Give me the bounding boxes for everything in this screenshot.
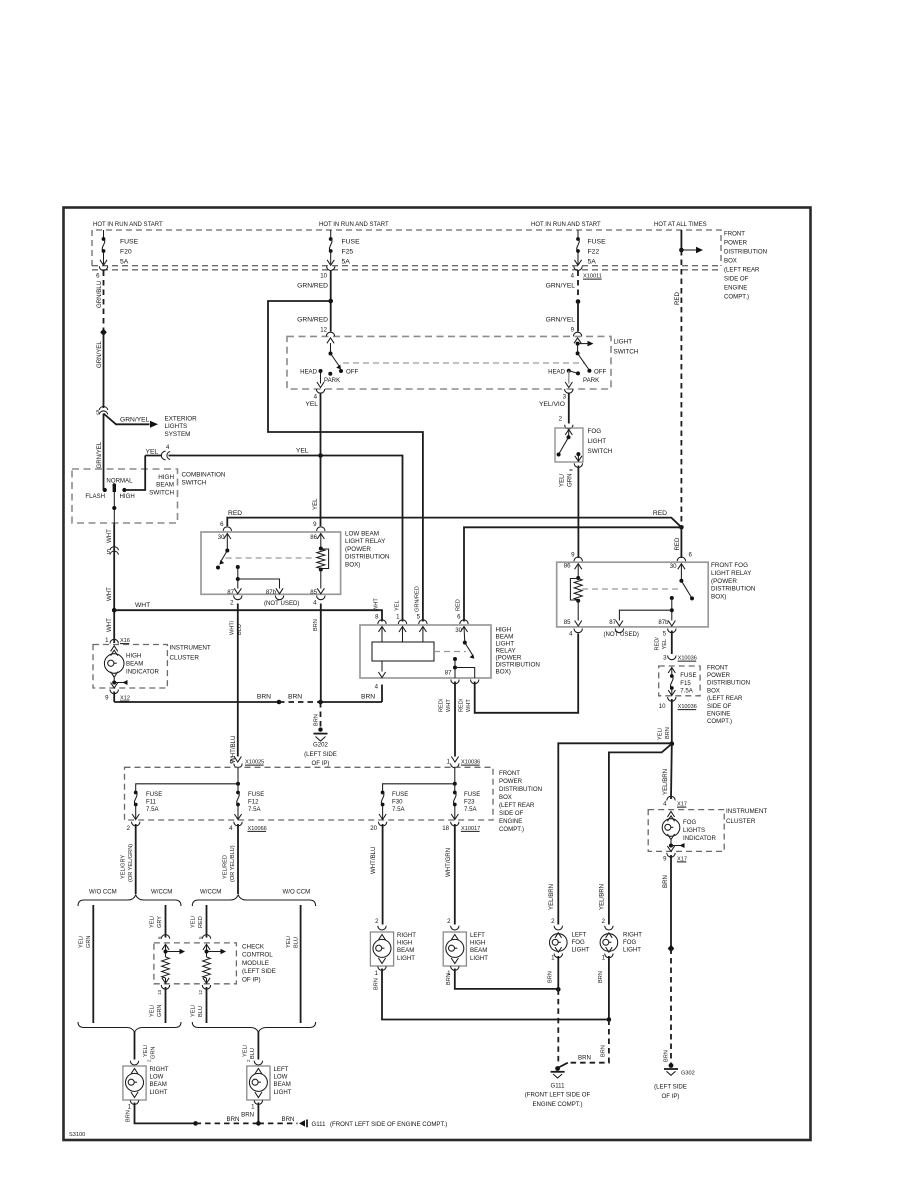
svg-text:HOT AT ALL TIMES: HOT AT ALL TIMES	[654, 222, 707, 228]
border frame	[64, 208, 811, 1141]
svg-text:10: 10	[659, 703, 666, 710]
svg-text:YEL/: YEL/	[559, 473, 566, 487]
svg-text:RIGHT: RIGHT	[623, 932, 642, 939]
svg-text:RED: RED	[674, 292, 681, 305]
wire into F11/F12	[237, 767, 239, 784]
wire from HIGH contact up to YEL line	[124, 456, 145, 491]
svg-text:WHT/: WHT/	[230, 620, 236, 635]
svg-text:FUSE: FUSE	[464, 791, 480, 798]
svg-text:F22: F22	[588, 249, 600, 256]
svg-text:BRN: BRN	[282, 1116, 295, 1123]
svg-text:POWER: POWER	[707, 672, 731, 679]
fuse F25 5A	[330, 230, 332, 239]
connector 4 X10066 below F12	[234, 822, 242, 826]
svg-text:20: 20	[370, 825, 377, 832]
junction left fog BRN node	[556, 987, 561, 992]
svg-text:(LEFT REAR: (LEFT REAR	[499, 802, 535, 809]
svg-text:DISTRIBUTION: DISTRIBUTION	[724, 249, 767, 256]
svg-text:HOT IN RUN AND START: HOT IN RUN AND START	[531, 222, 601, 228]
connector 1 X10036	[451, 757, 458, 763]
svg-text:86: 86	[564, 563, 571, 570]
svg-text:GRN: GRN	[567, 473, 574, 487]
svg-text:LIGHT: LIGHT	[623, 947, 641, 954]
svg-text:YEL: YEL	[312, 498, 319, 510]
svg-text:BOX): BOX)	[345, 561, 360, 568]
svg-text:7.5A: 7.5A	[680, 688, 693, 695]
junction RED node	[679, 525, 684, 530]
svg-text:S3100: S3100	[69, 1132, 85, 1138]
CCM resistor branch 1	[162, 944, 169, 950]
svg-text:YEL/GRY: YEL/GRY	[121, 855, 127, 879]
svg-text:87b: 87b	[658, 619, 669, 626]
svg-text:WHT: WHT	[106, 587, 113, 601]
right feed node with arrow	[577, 343, 579, 353]
svg-text:YEL: YEL	[305, 401, 318, 408]
svg-text:WHT/GRN: WHT/GRN	[445, 848, 452, 877]
wire BRN from left low beam	[257, 1103, 259, 1124]
svg-text:87: 87	[445, 670, 452, 677]
svg-text:(POWER: (POWER	[496, 655, 522, 662]
svg-text:PARK: PARK	[583, 377, 599, 384]
right contacts HEAD PARK	[567, 369, 571, 373]
svg-text:2: 2	[146, 1059, 151, 1062]
fog relay internal dashed link	[582, 588, 678, 590]
wire BRN from right low beam	[135, 1103, 196, 1124]
svg-text:RELAY: RELAY	[496, 648, 517, 655]
svg-text:BLU: BLU	[250, 1048, 256, 1059]
svg-text:WHT: WHT	[374, 598, 380, 611]
svg-text:RED/: RED/	[655, 637, 661, 651]
connector 10 X10036	[668, 697, 676, 701]
svg-text:(LEFT SIDE: (LEFT SIDE	[654, 1084, 687, 1091]
svg-text:F12: F12	[248, 799, 259, 806]
svg-text:POWER: POWER	[724, 240, 748, 247]
svg-text:HIGH: HIGH	[126, 653, 141, 660]
svg-text:COMBINATION: COMBINATION	[182, 472, 226, 479]
wire GRN/BLU (dashed) from F20	[103, 271, 105, 331]
svg-text:30: 30	[670, 563, 677, 570]
low beam light relay box	[201, 532, 341, 594]
fog light switch box	[555, 428, 583, 462]
svg-text:YEL/: YEL/	[242, 1044, 248, 1057]
fuse F15 7.5A	[668, 668, 675, 674]
svg-text:BRN: BRN	[374, 978, 380, 990]
svg-text:GRN/YEL: GRN/YEL	[120, 417, 150, 424]
wire RED/YEL from fog relay pin 5	[671, 631, 673, 655]
svg-text:LIGHTS: LIGHTS	[683, 827, 705, 834]
high beam light relay box	[360, 625, 491, 678]
svg-text:HEAD: HEAD	[300, 369, 318, 376]
wire WHT from combination switch	[113, 524, 115, 644]
svg-text:BRN: BRN	[662, 875, 669, 888]
connector pin 4 X10011 below F22	[574, 266, 582, 270]
wire YEL/GRY to CCM pin 6	[165, 905, 167, 938]
svg-text:87: 87	[609, 619, 616, 626]
wire YEL/BRN down to fog lights indicator	[670, 744, 673, 799]
relay internal 87 contact	[453, 657, 457, 661]
wire GRN/RED from F25 to light switch pin 12	[330, 271, 332, 332]
svg-text:YEL: YEL	[146, 448, 159, 455]
wire RED to high beam relay pin 6	[464, 527, 681, 621]
svg-text:LIGHT: LIGHT	[150, 1089, 168, 1096]
svg-text:F23: F23	[464, 799, 475, 806]
svg-text:WHT: WHT	[446, 699, 452, 712]
svg-text:85: 85	[564, 619, 571, 626]
junction YEL node	[318, 453, 323, 458]
pin 87a connector	[471, 680, 479, 684]
svg-text:FUSE: FUSE	[680, 672, 696, 679]
svg-text:BRN: BRN	[257, 694, 271, 701]
svg-text:CHECK: CHECK	[242, 944, 265, 951]
connector 9 X17	[667, 853, 675, 857]
wire into F30/F23	[454, 767, 456, 784]
svg-text:BOX: BOX	[707, 687, 720, 694]
junction GRN/RED node	[328, 299, 333, 304]
fuse F30 7.5A	[381, 791, 385, 795]
left output HEAD to pin 4	[320, 371, 322, 384]
wire GRN/YEL into combination switch	[103, 414, 105, 491]
svg-text:ENGINE: ENGINE	[724, 285, 747, 292]
brace (left, upper)	[78, 895, 181, 906]
wire YEL horizontal to high beam relay pin 1	[169, 456, 403, 622]
svg-text:FUSE: FUSE	[588, 239, 607, 246]
svg-text:12: 12	[320, 327, 327, 334]
combination switch (high beam switch) box	[72, 469, 178, 523]
svg-text:LOW: LOW	[274, 1074, 288, 1081]
svg-text:LEFT: LEFT	[274, 1066, 289, 1073]
svg-text:CLUSTER: CLUSTER	[170, 655, 200, 662]
svg-text:HIGH: HIGH	[120, 493, 135, 500]
svg-text:10: 10	[320, 273, 327, 280]
right low beam light	[130, 1061, 138, 1065]
left low beam light	[254, 1061, 262, 1065]
svg-text:YEL/BRN: YEL/BRN	[662, 769, 669, 795]
svg-text:INSTRUMENT: INSTRUMENT	[170, 645, 211, 652]
wire BRN dashed to G111	[557, 989, 559, 1064]
svg-text:EXTERIOR: EXTERIOR	[165, 416, 198, 423]
instrument cluster box (fog lights indicator)	[648, 810, 724, 852]
svg-text:BEAM: BEAM	[274, 1081, 291, 1088]
svg-text:W/O CCM: W/O CCM	[283, 889, 311, 896]
svg-text:BEAM: BEAM	[150, 1081, 167, 1088]
svg-text:GRN/YEL: GRN/YEL	[546, 283, 576, 290]
relay internal: 87 output	[236, 565, 240, 569]
svg-text:(OR YEL/BLU): (OR YEL/BLU)	[230, 845, 236, 882]
svg-text:DISTRIBUTION: DISTRIBUTION	[345, 554, 390, 561]
svg-text:ENGINE: ENGINE	[707, 711, 730, 718]
svg-text:LIGHT: LIGHT	[572, 947, 590, 954]
svg-text:BLU: BLU	[293, 937, 299, 948]
svg-text:BOX): BOX)	[711, 594, 726, 601]
svg-text:GRN: GRN	[86, 936, 92, 948]
svg-text:SIDE OF: SIDE OF	[724, 276, 749, 283]
svg-text:NORMAL: NORMAL	[106, 478, 133, 485]
junction BRN node (G202 branch)	[318, 700, 323, 705]
wire BRN dashed to ground G302	[670, 949, 672, 1065]
svg-text:LIGHT RELAY: LIGHT RELAY	[345, 538, 386, 545]
fog switch output pin	[576, 452, 580, 456]
svg-text:GRN/BLU: GRN/BLU	[96, 281, 103, 308]
ground G111 (front)	[559, 1063, 568, 1068]
svg-text:GRN/RED: GRN/RED	[297, 283, 328, 290]
svg-text:YEL/: YEL/	[191, 915, 197, 928]
svg-text:RIGHT: RIGHT	[150, 1066, 169, 1073]
svg-text:COMPT.): COMPT.)	[707, 718, 732, 725]
fuse F12 7.5A	[237, 784, 239, 791]
wire YEL/BRN from F15	[671, 699, 673, 744]
svg-text:BRN: BRN	[446, 973, 452, 985]
svg-text:FRONT: FRONT	[707, 664, 728, 671]
svg-text:85: 85	[310, 589, 317, 596]
switch output to NORMAL position	[113, 492, 115, 524]
connector pin 6 below F20	[99, 266, 107, 270]
svg-text:GRN: GRN	[157, 1005, 163, 1017]
wire YEL/BLU (w/o ccm)	[300, 905, 302, 1023]
svg-text:CONTROL: CONTROL	[242, 952, 273, 959]
svg-text:YEL/: YEL/	[143, 1044, 149, 1057]
svg-text:BRN: BRN	[578, 1055, 591, 1062]
wire GRN/YEL (dashed) from F22	[577, 271, 579, 300]
svg-text:FLASH: FLASH	[85, 493, 105, 500]
svg-text:87b: 87b	[266, 589, 277, 596]
wire BRN from low beam relay pin 4	[320, 604, 322, 703]
fog relay pin 5 connector	[668, 629, 676, 633]
wire RED from low beam relay pin 6	[227, 518, 681, 528]
svg-text:FRONT FOG: FRONT FOG	[711, 562, 748, 569]
brace (right, lower)	[192, 1022, 315, 1032]
svg-text:WHT: WHT	[106, 529, 113, 543]
wire BRN from left fog light	[557, 956, 559, 989]
CCM outputs	[161, 985, 169, 989]
fuse F22 5A	[577, 230, 579, 239]
svg-text:OFF: OFF	[346, 369, 358, 376]
svg-text:CLUSTER: CLUSTER	[726, 818, 756, 825]
svg-text:LEFT: LEFT	[470, 932, 485, 939]
svg-text:FOG: FOG	[683, 819, 696, 826]
svg-text:FOG: FOG	[572, 939, 585, 946]
splice node	[668, 945, 675, 952]
(NOT USED) stub	[275, 596, 283, 600]
wire YEL/BRN to right fog light	[609, 744, 672, 925]
wire YEL/GRY(OR YEL/GRN) from F11	[135, 824, 137, 894]
wire WHT/BLU from low beam relay pin 2	[237, 604, 239, 757]
wire YEL/BLU to left low beam	[257, 1031, 259, 1060]
fog switch lever	[565, 430, 572, 436]
svg-text:YEL: YEL	[662, 639, 668, 650]
svg-text:YEL/: YEL/	[658, 727, 664, 740]
wire BRN from right fog light	[608, 956, 610, 1020]
svg-text:LIGHT: LIGHT	[496, 641, 515, 648]
svg-text:LIGHT: LIGHT	[588, 438, 607, 445]
svg-text:BRN: BRN	[361, 694, 375, 701]
wire BRN from indicator	[670, 855, 672, 949]
svg-text:HIGH: HIGH	[470, 940, 485, 947]
svg-text:BRN: BRN	[313, 619, 319, 631]
svg-text:BRN: BRN	[314, 714, 320, 726]
svg-text:RED: RED	[228, 510, 242, 517]
svg-text:(LEFT SIDE: (LEFT SIDE	[242, 968, 276, 975]
ground G302	[669, 1063, 674, 1068]
svg-text:LIGHT: LIGHT	[274, 1089, 292, 1096]
svg-text:INSTRUMENT: INSTRUMENT	[726, 808, 767, 815]
svg-text:WHT: WHT	[106, 618, 113, 632]
svg-text:(LEFT SIDE: (LEFT SIDE	[304, 751, 337, 758]
svg-text:FUSE: FUSE	[146, 791, 162, 798]
svg-text:YEL/: YEL/	[150, 1004, 156, 1017]
svg-text:DISTRIBUTION: DISTRIBUTION	[499, 786, 542, 793]
G111 pointer symbol	[299, 1120, 305, 1127]
wire BRN dashed to ground	[320, 702, 322, 730]
junction WHT node	[112, 608, 117, 613]
svg-text:F20: F20	[120, 249, 132, 256]
svg-text:13: 13	[157, 989, 162, 995]
svg-text:BOX): BOX)	[496, 669, 511, 676]
wire WHT/GRN from F23 to left high beam	[454, 824, 456, 925]
svg-text:7.5A: 7.5A	[392, 806, 405, 813]
svg-text:SWITCH: SWITCH	[149, 489, 174, 496]
svg-text:BEAM: BEAM	[496, 634, 514, 641]
svg-text:BEAM: BEAM	[397, 947, 414, 954]
ground G202	[318, 727, 322, 731]
svg-text:HOT IN RUN AND START: HOT IN RUN AND START	[93, 222, 163, 228]
junction GRN/YEL node	[576, 299, 581, 304]
splice node	[100, 329, 107, 336]
fuse F23 7.5A	[454, 784, 456, 791]
CCM resistor branch 2	[203, 944, 210, 950]
svg-text:G111: G111	[312, 1121, 327, 1128]
svg-text:W/CCM: W/CCM	[200, 889, 221, 896]
wire YEL/GRN (w/o ccm)	[92, 905, 94, 1023]
svg-text:INDICATOR: INDICATOR	[683, 835, 717, 842]
svg-text:PARK: PARK	[324, 377, 340, 384]
wire BRN dashed to G111	[568, 1020, 609, 1063]
svg-text:LIGHT: LIGHT	[614, 339, 633, 346]
pin 2 connector	[234, 596, 242, 600]
svg-text:BOX: BOX	[499, 794, 512, 801]
svg-text:HIGH: HIGH	[158, 474, 174, 481]
svg-text:BLU: BLU	[237, 624, 243, 635]
svg-text:GRN/RED: GRN/RED	[415, 586, 421, 612]
relay internal: 87b stub (not used)	[238, 579, 280, 589]
lower front power distribution box	[125, 767, 494, 820]
svg-text:BRN: BRN	[227, 1116, 240, 1123]
svg-text:SWITCH: SWITCH	[588, 448, 613, 455]
svg-text:SIDE OF: SIDE OF	[499, 810, 524, 817]
svg-text:W/O CCM: W/O CCM	[89, 889, 117, 896]
svg-text:F25: F25	[342, 249, 354, 256]
wire YEL/RED to CCM pin 5	[206, 905, 208, 938]
svg-text:DISTRIBUTION: DISTRIBUTION	[711, 586, 756, 593]
svg-text:LIGHT RELAY: LIGHT RELAY	[711, 570, 752, 577]
svg-text:ENGINE: ENGINE	[499, 818, 522, 825]
svg-text:OF IP): OF IP)	[312, 760, 330, 767]
svg-text:HIGH: HIGH	[496, 627, 512, 634]
svg-text:12: 12	[198, 989, 203, 995]
svg-text:F30: F30	[392, 799, 403, 806]
svg-text:BRN: BRN	[598, 971, 604, 983]
svg-text:FUSE: FUSE	[248, 791, 264, 798]
svg-text:SIDE OF: SIDE OF	[707, 703, 732, 710]
svg-text:(LEFT REAR: (LEFT REAR	[724, 267, 760, 274]
svg-text:RIGHT: RIGHT	[397, 932, 416, 939]
svg-text:BRN: BRN	[664, 1050, 670, 1062]
wire YEL/VIO to fog light switch	[568, 393, 570, 424]
svg-text:YEL/: YEL/	[286, 935, 292, 948]
brace (left, lower)	[78, 1022, 181, 1032]
svg-text:LIGHT: LIGHT	[470, 955, 488, 962]
high beam indicator bulb	[111, 646, 118, 652]
connector 2 below F11	[132, 822, 140, 826]
connector 6 X10025	[234, 757, 241, 763]
svg-text:GRN/RED: GRN/RED	[297, 317, 328, 324]
svg-text:GRN/YEL: GRN/YEL	[96, 341, 103, 368]
svg-text:HIGH: HIGH	[397, 940, 412, 947]
svg-text:LIGHT: LIGHT	[397, 955, 415, 962]
svg-text:87: 87	[227, 589, 234, 596]
wire GRN/YEL down to switch 5	[103, 332, 105, 408]
BRN dashed to G111 arrow	[258, 1122, 297, 1124]
svg-text:ENGINE COMPT.): ENGINE COMPT.)	[532, 1101, 582, 1108]
svg-text:HEAD: HEAD	[548, 369, 566, 376]
svg-text:GRY: GRY	[157, 916, 163, 928]
fog relay pin 4 connector	[574, 629, 582, 633]
left contacts HEAD OFF PARK	[339, 369, 343, 373]
wire YEL/GRN from fog switch to fog relay	[577, 466, 579, 559]
svg-text:RED/: RED/	[439, 698, 445, 712]
fog lights indicator bulb	[667, 812, 674, 818]
pin 4 connector	[317, 596, 325, 600]
junction BRN node	[256, 1121, 261, 1126]
svg-text:BLU: BLU	[198, 1006, 204, 1017]
svg-text:RED: RED	[674, 537, 681, 550]
svg-text:FOG: FOG	[588, 428, 602, 435]
wire YEL/BRN to left fog light	[558, 743, 672, 924]
svg-text:OF IP): OF IP)	[662, 1093, 680, 1100]
svg-text:BEAM: BEAM	[156, 482, 174, 489]
svg-text:DISTRIBUTION: DISTRIBUTION	[707, 680, 750, 687]
svg-text:LOW: LOW	[150, 1074, 164, 1081]
svg-text:5A: 5A	[342, 259, 351, 266]
svg-text:7.5A: 7.5A	[248, 806, 261, 813]
svg-text:BRN: BRN	[126, 1110, 132, 1122]
svg-text:7.5A: 7.5A	[464, 806, 477, 813]
svg-text:LOW BEAM: LOW BEAM	[345, 531, 379, 538]
svg-text:FRONT: FRONT	[724, 231, 745, 238]
brace (right, upper)	[192, 895, 315, 906]
svg-text:YEL/BRN: YEL/BRN	[599, 884, 606, 910]
svg-text:RED/: RED/	[459, 698, 465, 712]
inner dashed link	[343, 362, 585, 364]
svg-text:SYSTEM: SYSTEM	[165, 431, 191, 438]
svg-text:BRN: BRN	[665, 727, 671, 739]
svg-text:COMPT.): COMPT.)	[499, 826, 524, 833]
front power distribution box (top dashed box)	[92, 230, 721, 266]
svg-text:FUSE: FUSE	[120, 239, 139, 246]
svg-text:LEFT: LEFT	[572, 932, 587, 939]
BRN bus	[114, 701, 279, 703]
front fog light relay box	[557, 562, 709, 627]
svg-text:YEL/: YEL/	[191, 1004, 197, 1017]
svg-text:BRN: BRN	[548, 971, 554, 983]
svg-text:YEL/: YEL/	[150, 915, 156, 928]
svg-text:SWITCH: SWITCH	[614, 349, 639, 356]
svg-text:G202: G202	[313, 742, 329, 749]
svg-text:(POWER: (POWER	[345, 546, 371, 553]
wire WHT/BLU from F30 to right high beam	[382, 824, 384, 925]
svg-text:SWITCH: SWITCH	[182, 480, 207, 487]
svg-text:YEL/: YEL/	[79, 935, 85, 948]
svg-text:WHT/BLU: WHT/BLU	[370, 847, 377, 874]
